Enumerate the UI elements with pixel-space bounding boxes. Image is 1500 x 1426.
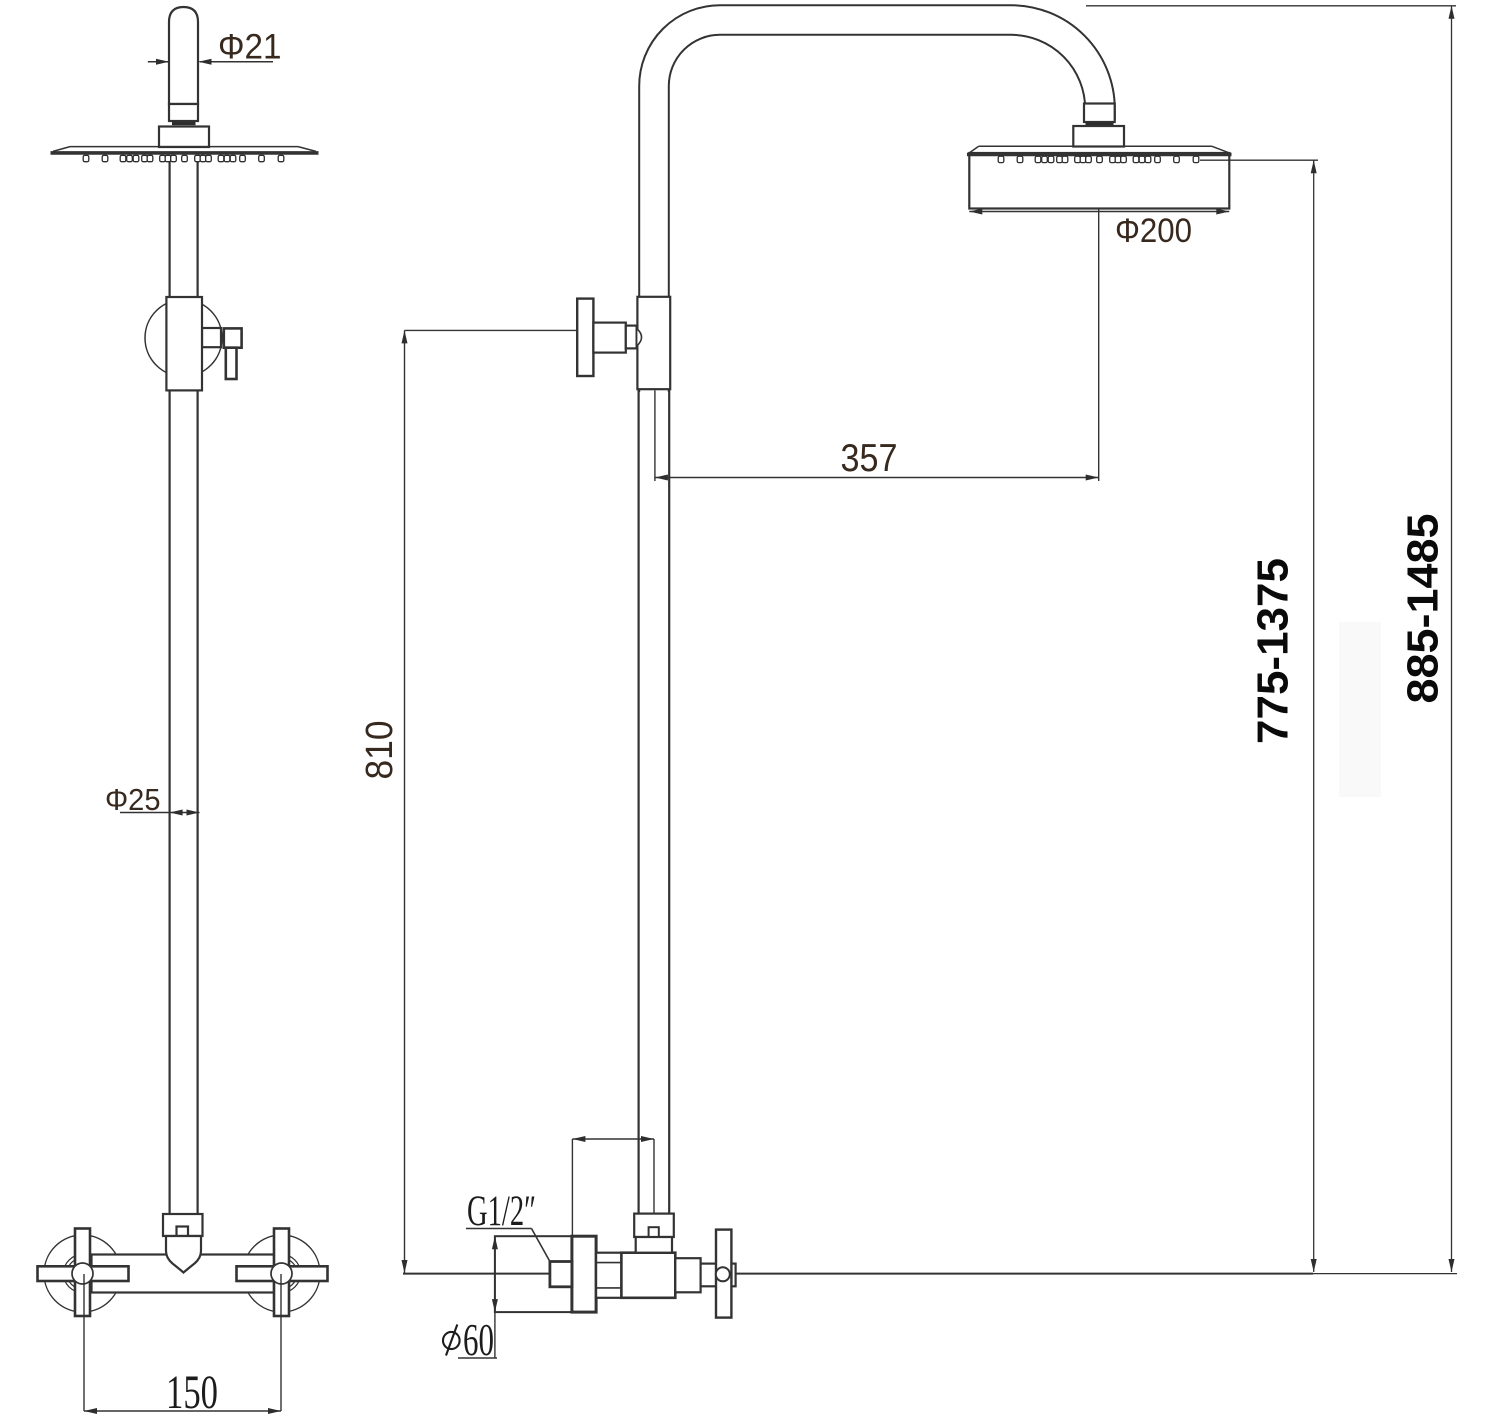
svg-text:Φ21: Φ21 <box>218 28 282 67</box>
svg-text:60: 60 <box>463 1315 494 1365</box>
svg-text:G1/2″: G1/2″ <box>467 1188 536 1235</box>
svg-text:Φ25: Φ25 <box>105 783 161 817</box>
svg-text:Φ200: Φ200 <box>1115 212 1192 250</box>
svg-text:885-1485: 885-1485 <box>1400 514 1448 704</box>
svg-text:357: 357 <box>841 437 898 480</box>
svg-text:810: 810 <box>359 721 401 780</box>
svg-text:150: 150 <box>166 1366 218 1419</box>
svg-text:775-1375: 775-1375 <box>1250 558 1298 744</box>
